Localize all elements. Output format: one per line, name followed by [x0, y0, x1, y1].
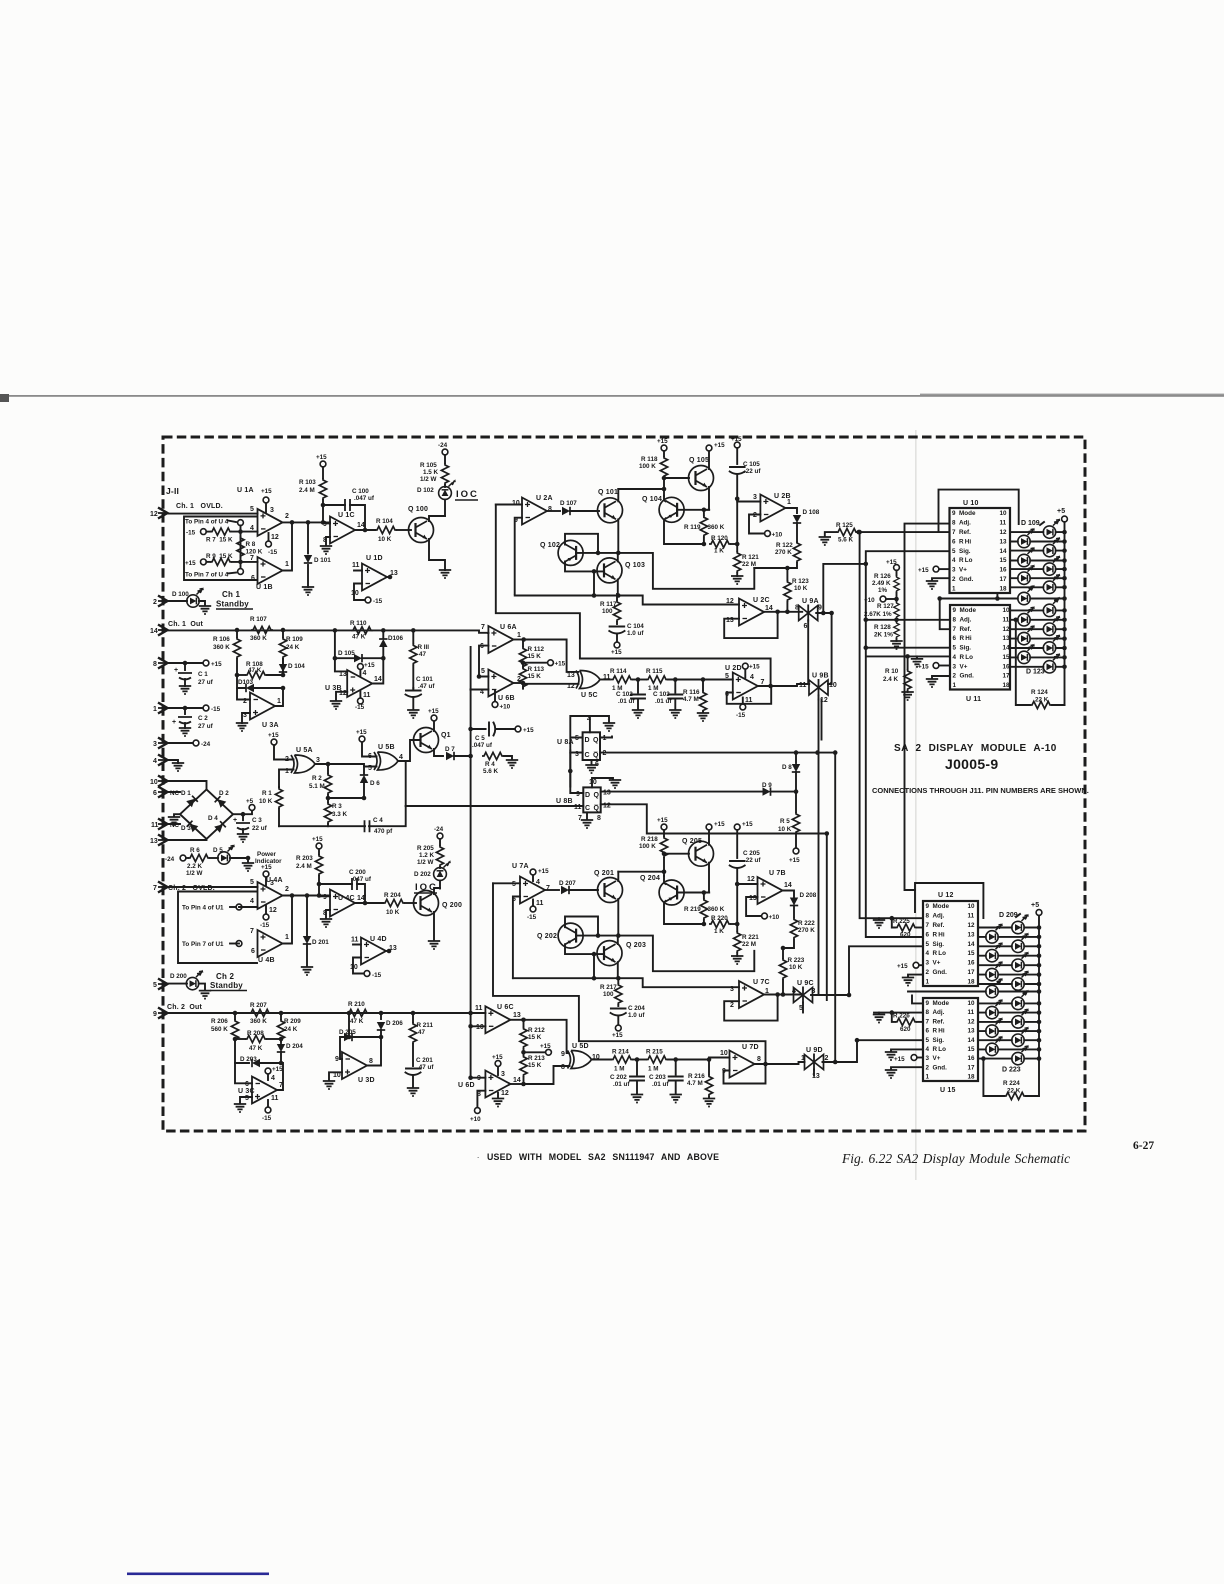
svg-text:8 Adj.: 8 Adj.	[926, 1009, 945, 1016]
wire U12 pin3 term	[897, 962, 923, 970]
LED D5 power indicator	[210, 844, 282, 871]
svg-text:D 105: D 105	[338, 650, 355, 657]
svg-text:D 207: D 207	[559, 880, 576, 887]
resistor R207	[249, 1002, 271, 1025]
svg-text:+10: +10	[500, 704, 511, 711]
svg-text:1: 1	[926, 979, 933, 986]
svg-text:R 207: R 207	[250, 1002, 267, 1009]
svg-text:1: 1	[952, 586, 959, 593]
svg-text:14: 14	[1003, 645, 1011, 652]
capacitor C3	[233, 798, 268, 842]
svg-text:1.0 uf: 1.0 uf	[628, 1012, 645, 1019]
+5 supply	[1057, 508, 1067, 705]
op-amp U6A	[479, 624, 521, 676]
base row wire	[576, 553, 754, 589]
svg-text:360 K: 360 K	[708, 906, 725, 913]
svg-text:-15: -15	[211, 706, 221, 713]
LED D217	[978, 990, 1041, 1010]
ground U11 pin2	[926, 676, 950, 687]
svg-text:6 R Hi: 6 R Hi	[926, 931, 945, 938]
svg-text:11: 11	[536, 900, 544, 907]
resistor R126	[872, 559, 899, 599]
bus U9B pin12 down	[818, 700, 820, 995]
svg-text:D 200: D 200	[170, 973, 187, 980]
svg-text:13: 13	[968, 931, 976, 938]
svg-text:+15: +15	[714, 821, 725, 828]
svg-text:15 K: 15 K	[528, 1034, 542, 1041]
LED D100 ch1 standby	[168, 587, 211, 614]
op-amp U2B	[737, 493, 791, 539]
svg-text:+15: +15	[918, 567, 929, 574]
svg-text:R 226: R 226	[893, 1013, 910, 1020]
capacitor C205	[730, 821, 762, 884]
capacitor C204	[611, 1005, 646, 1039]
LED D209	[978, 914, 1041, 934]
svg-text:C 204: C 204	[628, 1005, 645, 1012]
LED D116 row	[937, 585, 1066, 630]
svg-text:10 K: 10 K	[794, 585, 808, 592]
svg-text:Q1: Q1	[441, 732, 451, 739]
IC U11	[950, 605, 1010, 690]
svg-text:R 109: R 109	[286, 636, 303, 643]
svg-text:-15: -15	[268, 549, 278, 556]
bus U8B harness down	[826, 834, 828, 1001]
svg-text:U 7C: U 7C	[753, 979, 770, 986]
LED D214	[978, 961, 1041, 981]
op-amp U6B	[470, 668, 521, 711]
svg-text:10 K: 10 K	[789, 964, 803, 971]
faint scanner streak	[915, 430, 917, 1180]
svg-text:11: 11	[968, 1009, 975, 1016]
op-amp U1D	[351, 555, 398, 605]
svg-text:D 109: D 109	[1021, 520, 1040, 527]
svg-text:+15: +15	[918, 664, 929, 671]
resistor R106	[213, 630, 241, 675]
svg-text:22 K: 22 K	[1007, 1088, 1021, 1095]
svg-text:Q 200: Q 200	[442, 902, 462, 909]
svg-text:16: 16	[968, 960, 976, 967]
svg-text:U 2C: U 2C	[753, 597, 770, 604]
svg-text:15 K: 15 K	[528, 653, 542, 660]
xor gate U5A	[268, 732, 333, 787]
wire U15 pin8 row R226	[874, 1012, 923, 1014]
svg-text:2K 1%: 2K 1%	[874, 632, 893, 639]
resistor R1	[259, 787, 283, 826]
resistor R223	[779, 948, 804, 995]
svg-text:+15: +15	[555, 661, 566, 668]
svg-text:R 218: R 218	[641, 836, 658, 843]
svg-text:D 7: D 7	[445, 746, 455, 753]
resistor R113	[519, 663, 544, 689]
transistor Q202	[537, 917, 600, 957]
svg-text:10 K: 10 K	[378, 536, 392, 543]
ch1 standby label	[216, 590, 253, 609]
feedback box to U4	[184, 517, 257, 581]
capacitor C103	[653, 680, 682, 719]
svg-text:+15: +15	[538, 868, 549, 875]
svg-text:C 202: C 202	[610, 1074, 627, 1081]
svg-text:3: 3	[153, 741, 157, 748]
svg-text:1/2 W: 1/2 W	[420, 476, 437, 483]
svg-text:9: 9	[561, 1051, 565, 1058]
svg-text:47 K: 47 K	[249, 1045, 263, 1052]
svg-text:13: 13	[1000, 538, 1008, 545]
svg-text:U 6B: U 6B	[498, 695, 515, 702]
pin 10	[150, 776, 168, 787]
xor gate U5C	[523, 640, 611, 700]
terminal +10	[864, 596, 899, 604]
svg-text:11: 11	[271, 1095, 279, 1102]
svg-text:17: 17	[1003, 673, 1011, 680]
svg-text:.047 uf: .047 uf	[351, 876, 372, 883]
svg-text:5: 5	[481, 668, 485, 675]
terminal +15 U15 pin3	[894, 1055, 923, 1063]
LED D222	[978, 1036, 1041, 1056]
capacitor C105	[730, 436, 762, 499]
svg-text:Q̅: Q̅	[593, 804, 599, 812]
svg-text:R 1: R 1	[262, 790, 272, 797]
svg-text:12: 12	[271, 534, 279, 541]
IC U15	[923, 998, 978, 1081]
svg-text:3: 3	[316, 757, 320, 764]
svg-text:3: 3	[501, 1071, 505, 1078]
svg-text:Q 201: Q 201	[594, 870, 614, 877]
svg-text:D 201: D 201	[312, 939, 329, 946]
svg-text:11: 11	[352, 562, 360, 569]
svg-text:+15: +15	[611, 649, 622, 656]
svg-text:.01 uf: .01 uf	[655, 698, 672, 705]
svg-text:2.67K 1%: 2.67K 1%	[864, 611, 892, 618]
svg-text:27 uf: 27 uf	[198, 679, 214, 686]
svg-text:17: 17	[968, 969, 976, 976]
svg-text:Q: Q	[594, 792, 600, 799]
resistor R208	[235, 1030, 281, 1052]
svg-text:IOC: IOC	[415, 882, 438, 893]
wire U9D out to U15 Sig	[823, 1040, 924, 1062]
svg-text:U 10: U 10	[963, 500, 979, 507]
resistor R213	[520, 1049, 545, 1084]
wire U11 pin4 row	[868, 655, 951, 657]
svg-text:.047 uf: .047 uf	[472, 742, 493, 749]
wire U12 top loop	[915, 883, 983, 918]
resistor R5	[778, 793, 800, 864]
capacitor C102	[616, 680, 645, 719]
svg-text:R 115: R 115	[646, 668, 663, 675]
svg-text:C 105: C 105	[743, 461, 760, 468]
op-amp U1B	[250, 555, 289, 591]
dashed schematic border	[163, 437, 1085, 1131]
wire bus to U10 Sig	[866, 551, 950, 937]
svg-text:11: 11	[363, 692, 371, 699]
svg-text:R 2: R 2	[312, 775, 322, 782]
svg-text:22 K: 22 K	[1035, 697, 1049, 704]
svg-text:22 M: 22 M	[742, 561, 756, 568]
svg-text:14: 14	[784, 882, 792, 889]
wire U11 pin5 row	[866, 647, 950, 649]
resistor R205	[417, 826, 444, 867]
svg-text:D 223: D 223	[1002, 1067, 1021, 1074]
svg-text:R 217: R 217	[600, 984, 617, 991]
svg-text:+15: +15	[428, 708, 439, 715]
svg-text:+15: +15	[316, 454, 327, 461]
transistor Q1	[414, 708, 451, 756]
svg-text:2 Gnd.: 2 Gnd.	[953, 673, 975, 680]
svg-text:+15: +15	[211, 661, 222, 668]
svg-text:C 5: C 5	[475, 735, 485, 742]
svg-text:+15: +15	[261, 488, 272, 495]
pin 3	[153, 738, 168, 749]
svg-text:U 7D: U 7D	[742, 1044, 759, 1051]
svg-text:1: 1	[277, 698, 281, 705]
svg-text:SA 2 DISPLAY MODULE A-10: SA 2 DISPLAY MODULE A-10	[894, 743, 1057, 754]
svg-text:.: .	[477, 1151, 479, 1160]
svg-text:R 219: R 219	[684, 906, 701, 913]
svg-text:R 221: R 221	[742, 934, 759, 941]
svg-text:3 V+: 3 V+	[952, 567, 967, 574]
resistor R206	[211, 1013, 239, 1041]
terminal -24 pin3	[168, 740, 211, 748]
op-amp U7A	[493, 863, 766, 1064]
svg-text:10: 10	[968, 1000, 976, 1007]
svg-text:R 6: R 6	[190, 847, 200, 854]
svg-text:Ch. 2 Out: Ch. 2 Out	[167, 1004, 203, 1011]
svg-text:17: 17	[968, 1065, 976, 1072]
svg-text:+15: +15	[272, 1066, 283, 1073]
LED D112	[1010, 547, 1067, 567]
resistor R8	[237, 536, 263, 558]
LED D212	[978, 942, 1041, 962]
diode D9	[762, 782, 796, 796]
svg-text:+15: +15	[714, 442, 725, 449]
svg-text:1: 1	[285, 561, 289, 568]
svg-text:10 K: 10 K	[386, 909, 400, 916]
diode D206	[377, 1013, 404, 1037]
svg-text:D 5: D 5	[213, 847, 223, 854]
svg-text:8 Adj.: 8 Adj.	[953, 616, 972, 623]
resistor R210	[347, 1001, 369, 1025]
diode D8	[782, 750, 800, 793]
diode D205	[339, 1013, 381, 1041]
diode D103	[237, 675, 283, 692]
svg-text:+15: +15	[749, 664, 760, 671]
svg-text:R 126: R 126	[874, 573, 891, 580]
svg-text:+5: +5	[1057, 508, 1065, 515]
svg-text:2.49 K: 2.49 K	[872, 580, 891, 587]
svg-text:12: 12	[726, 598, 734, 605]
svg-text:U 3C: U 3C	[238, 1088, 255, 1095]
svg-text:R 211: R 211	[417, 1022, 434, 1029]
pin 14	[150, 625, 168, 636]
diode D107	[547, 500, 599, 515]
LED D119	[1010, 615, 1067, 635]
svg-text:D 101: D 101	[314, 557, 331, 564]
svg-text:Ch 1: Ch 1	[222, 590, 240, 599]
svg-text:10: 10	[1000, 510, 1008, 517]
svg-text:U 1D: U 1D	[366, 555, 383, 562]
svg-text:U 3A: U 3A	[262, 722, 279, 729]
svg-text:R 205: R 205	[417, 845, 434, 852]
svg-text:R 106: R 106	[213, 636, 230, 643]
svg-text:U 4C: U 4C	[338, 895, 355, 902]
svg-text:R 209: R 209	[284, 1018, 301, 1025]
svg-text:R 212: R 212	[528, 1027, 545, 1034]
resistor R112	[519, 640, 544, 669]
svg-text:5 Sig.: 5 Sig.	[953, 645, 972, 652]
svg-text:R 128: R 128	[874, 624, 891, 631]
ground U12 pin2	[902, 975, 923, 986]
svg-text:7: 7	[578, 815, 582, 822]
LED D102 IOC	[417, 479, 479, 516]
svg-text:+15: +15	[657, 438, 668, 445]
op-amp U3A	[236, 688, 283, 731]
LED D121	[1010, 634, 1067, 654]
svg-text:3: 3	[270, 507, 274, 514]
capacitor C200	[319, 869, 372, 896]
svg-text:2 Gnd.: 2 Gnd.	[926, 969, 948, 976]
svg-text:11: 11	[151, 822, 159, 829]
svg-text:2.4 M: 2.4 M	[296, 863, 312, 870]
svg-text:2: 2	[517, 676, 521, 683]
svg-text:15: 15	[1000, 557, 1008, 564]
svg-text:+10: +10	[769, 914, 780, 921]
svg-text:8: 8	[757, 1056, 761, 1063]
svg-text:12: 12	[150, 511, 158, 518]
LED D113	[1010, 555, 1067, 575]
svg-text:12: 12	[968, 1018, 976, 1025]
resistor R204	[365, 892, 416, 916]
emitter rail wire	[515, 596, 739, 605]
wire U10 pin8 to U12 top	[905, 524, 950, 890]
terminal +15 U10 pin3	[918, 566, 950, 574]
op-amp U4A	[239, 864, 289, 929]
svg-text:5: 5	[250, 879, 254, 886]
svg-text:U 6C: U 6C	[497, 1004, 514, 1011]
diode D6	[360, 766, 380, 798]
svg-text:12: 12	[501, 1090, 509, 1097]
svg-text:D: D	[585, 737, 590, 744]
wire U15 left loop	[912, 995, 923, 1003]
svg-text:U 15: U 15	[940, 1087, 956, 1094]
svg-text:D 8: D 8	[782, 764, 792, 771]
resistor R117	[600, 594, 621, 622]
wire bus A R125 to U12 pin8	[860, 532, 950, 918]
svg-text:R 116: R 116	[683, 689, 700, 696]
svg-text:-15: -15	[260, 922, 270, 929]
svg-text:100 K: 100 K	[639, 463, 656, 470]
svg-text:18: 18	[1003, 682, 1011, 689]
svg-text:R 103: R 103	[299, 479, 316, 486]
svg-text:+15: +15	[364, 662, 375, 669]
capacitor C4	[279, 806, 406, 835]
+5 supply bottom	[1031, 902, 1042, 1096]
svg-text:To Pin 4 of U 4: To Pin 4 of U 4	[185, 519, 229, 526]
op-amp U7C	[724, 979, 803, 1021]
base row wire	[576, 936, 754, 972]
svg-text:R 220: R 220	[711, 915, 728, 922]
resistor R224	[981, 1056, 1039, 1099]
svg-text:10: 10	[476, 1024, 484, 1031]
svg-text:8: 8	[597, 815, 601, 822]
svg-text:13: 13	[1003, 635, 1011, 642]
svg-text:D106: D106	[388, 635, 404, 642]
svg-text:C 103: C 103	[653, 691, 670, 698]
svg-text:D 123: D 123	[1026, 669, 1045, 676]
svg-text:Standby: Standby	[216, 600, 249, 609]
svg-text:15: 15	[1003, 654, 1011, 661]
svg-text:To Pin 7 of U 4: To Pin 7 of U 4	[185, 572, 229, 579]
resistor R215	[633, 1049, 709, 1073]
svg-text:4: 4	[792, 988, 796, 995]
triac U9D	[779, 1047, 836, 1080]
svg-text:360 K: 360 K	[708, 524, 725, 531]
svg-text:Ch. 1 Out: Ch. 1 Out	[168, 621, 204, 628]
svg-text:16: 16	[968, 1055, 976, 1062]
svg-text:C 104: C 104	[627, 623, 644, 630]
svg-text:6 R Hi: 6 R Hi	[952, 538, 971, 545]
svg-text:Ch 2: Ch 2	[216, 972, 234, 981]
svg-text:7: 7	[250, 555, 254, 562]
svg-text:2: 2	[285, 513, 289, 520]
ch2 standby label	[210, 972, 247, 991]
svg-text:7: 7	[250, 928, 254, 935]
resistor R219	[684, 893, 725, 925]
diode D203	[235, 1039, 281, 1067]
svg-text:10: 10	[1003, 607, 1011, 614]
svg-text:14: 14	[513, 1077, 521, 1084]
svg-text:R 118: R 118	[641, 456, 658, 463]
svg-text:U 1A: U 1A	[237, 487, 254, 494]
svg-text:1.2 K: 1.2 K	[419, 852, 435, 859]
svg-text:3.3 K: 3.3 K	[332, 811, 348, 818]
resistor R114	[610, 668, 633, 692]
svg-text:1: 1	[153, 706, 157, 713]
svg-text:18: 18	[968, 1074, 976, 1081]
resistor R110	[350, 620, 373, 641]
svg-text:D 1: D 1	[181, 790, 191, 797]
svg-text:15 K: 15 K	[528, 673, 542, 680]
resistor R221	[731, 884, 759, 964]
svg-text:4: 4	[250, 525, 254, 532]
svg-text:+15: +15	[742, 821, 753, 828]
svg-text:4: 4	[153, 758, 157, 765]
svg-text:Q 203: Q 203	[626, 942, 646, 949]
bus U8A pin2 row down	[834, 753, 836, 1062]
svg-text:D103: D103	[238, 679, 254, 686]
svg-text:3: 3	[270, 880, 274, 887]
LED D120	[1010, 625, 1067, 645]
resistor R220	[709, 915, 737, 935]
svg-text:Q 205: Q 205	[682, 838, 702, 845]
flip-flop U8A	[557, 716, 835, 787]
LED D202 IOC	[414, 860, 451, 893]
resistor R118	[639, 438, 668, 496]
capacitor C1	[168, 660, 222, 694]
svg-text:14: 14	[357, 895, 365, 902]
svg-text:U 4B: U 4B	[258, 957, 275, 964]
op-amp U3D	[323, 1037, 381, 1089]
svg-text:1%: 1%	[878, 587, 888, 594]
svg-text:U 1C: U 1C	[338, 512, 355, 519]
op-amp U6D	[458, 1054, 521, 1123]
svg-text:-15: -15	[373, 598, 383, 605]
bottom blue mark	[127, 1573, 269, 1576]
svg-text:R 117: R 117	[600, 601, 617, 608]
IC U12	[923, 901, 978, 986]
svg-text:4: 4	[750, 674, 754, 681]
svg-text:16: 16	[1000, 567, 1008, 574]
LED D223	[978, 1045, 1041, 1065]
ground U10 pin2	[926, 578, 950, 589]
